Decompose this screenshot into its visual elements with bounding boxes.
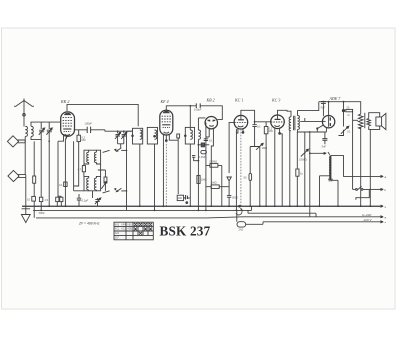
tube KB2 bbox=[205, 117, 217, 129]
banana plug P1 bbox=[7, 136, 25, 147]
coupling capacitor 0.1 bbox=[252, 122, 256, 141]
IF transformer T1 bbox=[132, 128, 143, 144]
svg-text:BSK 237: BSK 237 bbox=[160, 224, 211, 239]
trimmer capacitor C4 bbox=[121, 131, 127, 144]
oscillator/antenna coil L2 bbox=[31, 126, 33, 136]
junction node grid KC3 bbox=[254, 121, 256, 123]
resistor 0.2M detector load bbox=[198, 143, 209, 147]
svg-text:KF 4: KF 4 bbox=[160, 99, 169, 104]
wire: mains vertical bbox=[309, 131, 311, 217]
svg-text:KK2: KK2 bbox=[115, 224, 120, 226]
wire: KF4 legs down bbox=[162, 137, 164, 206]
cap box on cathode column bbox=[64, 182, 67, 187]
svg-text:0,1: 0,1 bbox=[257, 125, 261, 129]
wire: KC1 cathode dashed bbox=[240, 129, 242, 206]
svg-text:0,2MΩ: 0,2MΩ bbox=[210, 160, 218, 164]
tap arrow into choke bbox=[310, 152, 330, 155]
trimmer capacitor C3 bbox=[115, 131, 121, 144]
chassis bus bbox=[22, 205, 380, 207]
fuse bbox=[237, 222, 246, 227]
wire: rail drop to T3 primary bbox=[189, 106, 191, 130]
svg-text:5000: 5000 bbox=[39, 211, 45, 215]
svg-text:0,1μF: 0,1μF bbox=[82, 199, 89, 203]
wire wiper column bbox=[259, 147, 261, 207]
resistor 1M horizontal bbox=[206, 185, 229, 189]
wire: KK2 top cap to IF rail bbox=[67, 104, 138, 126]
wire: plug1 column down bbox=[24, 142, 26, 175]
wire: T5 primary bottom down bbox=[360, 127, 362, 206]
capacitor small at 193.6 bbox=[192, 156, 198, 161]
potentiometer 1M volume bbox=[250, 141, 263, 150]
phone jack bbox=[236, 205, 242, 221]
svg-text:Ω: Ω bbox=[348, 113, 350, 117]
svg-text:KC1: KC1 bbox=[115, 229, 120, 231]
band switch S1b bbox=[103, 188, 127, 193]
dot terminal left of ADE7 bbox=[316, 127, 318, 129]
interstage transformer T4 primary bbox=[289, 117, 291, 131]
svg-text:5000: 5000 bbox=[232, 196, 238, 200]
tube KF4 bbox=[160, 110, 173, 135]
wire: L1 bottom down bbox=[24, 137, 26, 142]
boxed electrolytic block bbox=[177, 195, 190, 204]
junction dots on anode rail bbox=[117, 130, 119, 132]
wire: choke top to terminal A bbox=[330, 156, 380, 177]
svg-text:KB2: KB2 bbox=[127, 224, 132, 226]
svg-text:U~240: U~240 bbox=[362, 213, 371, 217]
loudspeaker bbox=[369, 113, 386, 130]
potentiometer 0.5M tone bbox=[301, 149, 309, 206]
wire: T4 tap to ADE7 grid bbox=[300, 118, 322, 121]
padder trimmer bottom bbox=[95, 198, 101, 206]
svg-text:KC 3: KC 3 bbox=[271, 98, 280, 103]
wires: osc coil links bbox=[89, 150, 106, 198]
svg-text:0,1: 0,1 bbox=[347, 130, 351, 134]
IF transformer T3 bbox=[185, 127, 195, 144]
svg-text:KC3: KC3 bbox=[121, 229, 126, 231]
oscillator coil L4a bbox=[84, 176, 89, 190]
trimmer capacitor C2 bbox=[46, 122, 52, 206]
trimmer capacitor C1 bbox=[39, 122, 45, 143]
wire: trimmer1 column down bbox=[40, 144, 42, 198]
wire: KC3 anode loop to T4 bbox=[278, 110, 292, 119]
svg-text:100: 100 bbox=[178, 196, 183, 200]
tube KC1 bbox=[234, 115, 248, 129]
wire: plug2 to ground/bus bbox=[25, 177, 27, 206]
wire: rail into T1 bbox=[127, 130, 133, 132]
arrowheads overlay bbox=[42, 126, 349, 200]
oscillator coil L3b bbox=[94, 150, 100, 164]
wire: speaker to bus bbox=[369, 129, 371, 206]
wire: L2 bottom jog bbox=[31, 137, 42, 140]
tube ADE7 bbox=[322, 116, 334, 128]
T5 secondary bbox=[367, 118, 371, 126]
banana plug P2 bbox=[8, 170, 26, 181]
wire: KF4 cathode dashed bbox=[165, 141, 167, 206]
wire: column x=34.2 bbox=[33, 141, 35, 218]
capacitor 100pF grid KB2 bbox=[196, 103, 200, 108]
resistor 50k oval bbox=[249, 147, 252, 207]
svg-text:4,7: 4,7 bbox=[78, 168, 82, 172]
twin box capacitors bbox=[56, 196, 63, 206]
terminal arrow S bbox=[380, 205, 383, 207]
T5 core bbox=[364, 113, 366, 128]
svg-text:KB 2: KB 2 bbox=[206, 98, 215, 103]
svg-text:KC 1: KC 1 bbox=[234, 98, 243, 103]
wire column x=221.8 bbox=[221, 165, 223, 206]
wire: T4 secondary bottom to cathode rail bbox=[297, 130, 299, 133]
wire: KB2 left leg to column bbox=[206, 123, 209, 211]
T3 secondary coil bbox=[198, 118, 205, 139]
capacitor 5000 box bbox=[39, 197, 42, 210]
wire: cathode rail bbox=[298, 128, 327, 132]
link connector bbox=[201, 150, 207, 153]
tube KK2 bbox=[61, 112, 75, 136]
capacitor 5000 bbox=[227, 194, 231, 206]
wire: grid node to KC3 bbox=[255, 121, 271, 123]
terminal arrow K bbox=[380, 188, 383, 190]
wire: T2 coil bottom to bus bbox=[154, 144, 156, 210]
output transformer T5 primary bbox=[353, 112, 363, 129]
HT rail top bbox=[319, 102, 361, 113]
capacitor 5nF cathode bbox=[322, 132, 327, 144]
heater bus bbox=[36, 217, 380, 218]
oscillator coil L3a bbox=[84, 150, 89, 164]
link line bbox=[248, 210, 316, 216]
oscillator coil L4b bbox=[94, 176, 100, 190]
svg-text:AZ1: AZ1 bbox=[115, 232, 120, 235]
mains choke bbox=[328, 156, 333, 181]
wire: T3 secondary to detector bbox=[197, 139, 199, 210]
IF transformer T2 bbox=[147, 127, 157, 144]
wire: L2 top to grid rail bbox=[31, 122, 60, 126]
antenna coil L1 bbox=[25, 126, 27, 136]
tube KC3 bbox=[271, 115, 285, 129]
svg-text:100pF: 100pF bbox=[85, 122, 93, 126]
cathode bias resistor 50 bbox=[296, 132, 299, 206]
terminal arrow A1 bbox=[380, 175, 383, 177]
electrolytic box cap bbox=[32, 196, 36, 201]
wire: anode rail down x=105 bbox=[105, 130, 133, 211]
padder arrow bbox=[101, 182, 106, 189]
svg-text:ZF = 488 kHz: ZF = 488 kHz bbox=[78, 222, 100, 226]
wire: T3 primary bottom to bus bbox=[189, 144, 191, 206]
wire: T4 primary bottom to bus bbox=[289, 131, 291, 206]
wire: KC1 grid to detector column bbox=[229, 122, 234, 173]
resistor in osc bbox=[82, 164, 85, 176]
wire: T1 coil bottom to bus bbox=[139, 144, 141, 206]
potentiometer tone 2 bbox=[339, 111, 349, 136]
junction node bbox=[48, 140, 50, 142]
svg-text:2A2: 2A2 bbox=[239, 228, 244, 232]
grid resistor 0.2M bbox=[264, 122, 268, 206]
terminal arrow U bbox=[380, 216, 383, 218]
wire: KF4 top cap rail to KB2 bbox=[166, 106, 222, 120]
wire: trimmer row bottoms bbox=[118, 143, 124, 145]
wire: KK2 left leg bbox=[58, 134, 64, 197]
svg-text:1MΩ: 1MΩ bbox=[201, 178, 207, 182]
wire: T4 secondary top to HT rail bbox=[298, 102, 319, 116]
svg-text:ADE: ADE bbox=[127, 228, 132, 231]
small box cap on leg bbox=[177, 134, 180, 138]
wire: KK2 cathode column bbox=[64, 140, 66, 206]
antenna bbox=[14, 99, 34, 127]
svg-text:0,1: 0,1 bbox=[59, 183, 63, 187]
svg-text:KF4: KF4 bbox=[121, 224, 126, 226]
wire column x=236.4 bbox=[235, 129, 237, 210]
resistor 0.2M horizontal bbox=[206, 164, 222, 168]
capacitor 0.1uF at x=79 bbox=[77, 194, 81, 206]
valve table bbox=[114, 222, 153, 240]
svg-text:KK 2: KK 2 bbox=[60, 99, 69, 104]
fuse small vertical x=34.2 bbox=[33, 176, 36, 183]
resistor 25ohm with node bbox=[342, 102, 352, 190]
svg-text:0,5MΩ: 0,5MΩ bbox=[299, 158, 307, 162]
wire: pot column drop bbox=[304, 132, 306, 149]
wire: KB2 right leg down bbox=[211, 140, 213, 206]
svg-text:1,5: 1,5 bbox=[45, 198, 49, 202]
svg-text:ADE 7: ADE 7 bbox=[329, 96, 342, 101]
wire: ADE7 bottom-left pin bbox=[317, 125, 323, 132]
capacitor 5nF anode bbox=[321, 102, 326, 117]
wire column x=251.5 bbox=[251, 206, 253, 210]
svg-text:0,2MΩ: 0,2MΩ bbox=[199, 155, 207, 159]
diode detector bbox=[227, 177, 231, 194]
T4 core bbox=[294, 116, 295, 130]
svg-text:MΩ: MΩ bbox=[82, 138, 86, 142]
svg-text:5nF: 5nF bbox=[321, 105, 326, 109]
capacitor 100pF (KK2 anode) bbox=[74, 127, 105, 133]
svg-text:1MΩ: 1MΩ bbox=[211, 181, 217, 185]
svg-text:220 V: 220 V bbox=[363, 218, 373, 222]
capacitor 0.1uF on column bbox=[204, 139, 208, 141]
wire: under-choke box bbox=[320, 176, 339, 206]
T4 secondary bbox=[298, 116, 300, 130]
svg-text:100pF: 100pF bbox=[194, 108, 202, 112]
band switch S1a bbox=[103, 144, 127, 153]
mains bus bbox=[246, 222, 380, 225]
terminal arrow mains bbox=[380, 221, 383, 223]
resistor 0.2M below KK2 bbox=[74, 130, 81, 186]
svg-text:5nF: 5nF bbox=[322, 145, 327, 149]
svg-text:0,1: 0,1 bbox=[209, 139, 213, 143]
wire columns x=73.6 bbox=[74, 141, 84, 191]
resistor on switch column bbox=[104, 170, 107, 191]
resistor 1M vertical bbox=[197, 175, 200, 183]
barretter switch bbox=[353, 186, 380, 200]
second bus bbox=[33, 209, 252, 211]
wire: KC1 anode loop bbox=[241, 110, 255, 122]
ground bbox=[21, 206, 30, 222]
svg-text:MΩ: MΩ bbox=[269, 129, 273, 133]
junction dots on buses bbox=[40, 205, 371, 211]
